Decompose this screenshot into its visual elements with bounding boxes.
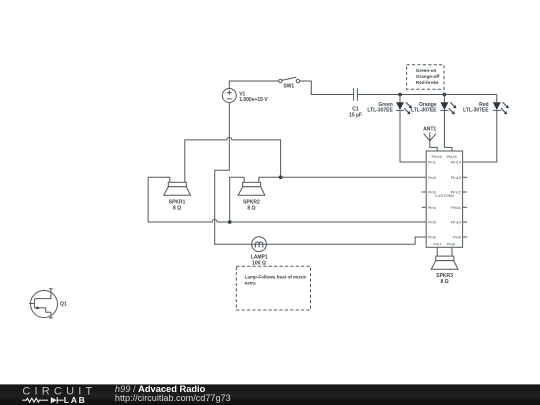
svg-text:1.000e+15 V: 1.000e+15 V xyxy=(239,97,268,103)
annotation box lamp note xyxy=(236,266,310,310)
svg-text:LTL-307EE: LTL-307EE xyxy=(463,108,489,114)
LED D1 green LTL-307EE xyxy=(367,95,426,163)
svg-text:Lamp-Follows beat of music: Lamp-Follows beat of music xyxy=(245,274,307,279)
svg-text:15 µF: 15 µF xyxy=(349,112,362,118)
wire Pin7 to SPKR3 xyxy=(436,247,438,256)
svg-text:Pin16: Pin16 xyxy=(431,154,442,159)
svg-text:Green-on: Green-on xyxy=(416,68,437,73)
transistor Q1 xyxy=(29,289,67,318)
svg-text:LTL-307EE: LTL-307EE xyxy=(411,108,437,114)
svg-text:Pin5: Pin5 xyxy=(428,220,437,225)
node bottom rail junction xyxy=(228,220,232,224)
pin stub Pin3 xyxy=(422,191,427,193)
speaker SPKR1 xyxy=(164,182,191,211)
svg-text:Pin11: Pin11 xyxy=(451,205,462,210)
pin stub Pin4 xyxy=(422,206,427,208)
svg-text:100 Ω: 100 Ω xyxy=(252,260,266,266)
LED D2 orange LTL-307EE xyxy=(411,95,456,152)
svg-text:8 Ω: 8 Ω xyxy=(441,279,449,285)
pin stub Pin13 xyxy=(463,176,468,178)
wire LAMP1 to Pin6 xyxy=(266,237,426,244)
pin stub Pin12 xyxy=(463,191,468,193)
svg-text:http://circuitlab.com/cd77g73: http://circuitlab.com/cd77g73 xyxy=(115,393,231,403)
svg-text:Red-broke: Red-broke xyxy=(416,80,439,85)
IC U1 CUSTOM1 xyxy=(426,151,462,247)
svg-text:SW1: SW1 xyxy=(283,84,294,90)
speaker SPKR3 xyxy=(431,256,458,285)
logo resistor zigzag and diode xyxy=(22,398,48,402)
svg-text:SPKR3: SPKR3 xyxy=(436,273,453,279)
svg-text:Pin9: Pin9 xyxy=(453,235,462,240)
svg-text:8 Ω: 8 Ω xyxy=(173,205,181,211)
svg-text:LAMP1: LAMP1 xyxy=(251,254,268,260)
pin stub Pin9 xyxy=(463,236,468,238)
annotation box LED legend xyxy=(407,65,444,89)
svg-text:Pin13: Pin13 xyxy=(451,175,462,180)
pin stub Pin10 xyxy=(463,221,468,223)
wire rail SPKR1 right to Pin2 net (hop over V1 wire) xyxy=(185,137,281,182)
node orange LED junction xyxy=(443,93,447,97)
svg-text:LTL-307EE: LTL-307EE xyxy=(367,108,393,114)
lamp LAMP1 xyxy=(251,237,268,267)
pin stub Pin11 xyxy=(463,206,468,208)
wire SPKR1 left leg xyxy=(148,177,170,222)
svg-text:ANT1: ANT1 xyxy=(423,126,436,132)
footer bar xyxy=(0,384,540,405)
svg-text:Pin2: Pin2 xyxy=(428,175,437,180)
wire SPKR2 left leg xyxy=(230,177,244,222)
svg-text:Pin4: Pin4 xyxy=(428,205,437,210)
wire Pin8 to SPKR3 xyxy=(451,247,453,256)
svg-text:Q1: Q1 xyxy=(60,302,67,308)
svg-text:Pin15: Pin15 xyxy=(446,154,457,159)
wire SW1 to C1 xyxy=(300,81,354,95)
wire V1 minus to LAMP1 (crosses rails with hops) xyxy=(215,103,252,245)
svg-text:Orange-off: Orange-off xyxy=(416,74,440,79)
antenna ANT1 xyxy=(423,126,437,151)
LED D3 red LTL-307EE xyxy=(463,95,509,163)
svg-text:CUSTOM1: CUSTOM1 xyxy=(435,193,455,198)
node green LED junction xyxy=(398,93,402,97)
svg-text:Pin8: Pin8 xyxy=(447,242,456,247)
wire V1 top to SW1 xyxy=(229,81,278,89)
speaker SPKR2 xyxy=(238,182,265,211)
svg-text:Pin14: Pin14 xyxy=(451,160,462,165)
wire SPKR2 right pin to Pin2 xyxy=(259,177,426,182)
svg-text:Pin10: Pin10 xyxy=(451,220,462,225)
node Pin2 net junction xyxy=(279,175,283,179)
wire C1 to red LED corner xyxy=(357,94,496,96)
svg-text:Pin7: Pin7 xyxy=(433,242,442,247)
svg-text:8 Ω: 8 Ω xyxy=(247,205,255,211)
svg-text:Pin6: Pin6 xyxy=(428,235,437,240)
wire bottom rail to Pin5 (hop over lamp wire) xyxy=(148,220,426,223)
svg-text:extra: extra xyxy=(245,281,256,286)
voltage source V1 xyxy=(222,89,268,104)
switch SW1 xyxy=(279,77,300,89)
svg-text:Pin1: Pin1 xyxy=(428,160,437,165)
svg-text:LAB: LAB xyxy=(64,395,87,405)
capacitor C1 xyxy=(349,88,362,118)
